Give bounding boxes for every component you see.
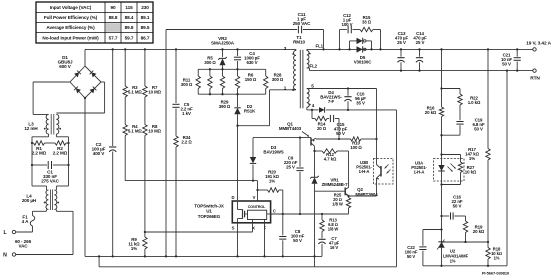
- node RTN terminal: [530, 69, 540, 82]
- capacitor C9 220 nF 25 V: [284, 138, 304, 216]
- pin labels U1: [232, 195, 276, 230]
- svg-text:TOP266EG: TOP266EG: [198, 214, 221, 219]
- wire opto collector column: [376, 89, 378, 159]
- wire drain to T1 pin 1: [238, 89, 297, 126]
- bridge rectifier D1 GBU8J 600 V: [58, 55, 101, 98]
- svg-text:250 VAC: 250 VAC: [293, 21, 311, 26]
- svg-text:2.2 MΩ: 2.2 MΩ: [53, 151, 68, 156]
- shunt regulator U2 LMV431AIMF 1%: [437, 240, 469, 267]
- capacitor C10 56 uF 35 V: [344, 89, 366, 110]
- capacitor C7 47 uF 16 V: [318, 236, 339, 256]
- capacitor C14 470 uF 25 V: [413, 31, 427, 72]
- wire lower return rail: [98, 255, 397, 267]
- svg-text:1%: 1%: [269, 179, 275, 184]
- svg-text:50 V: 50 V: [336, 131, 345, 136]
- wire secondary FL2 to RTN rail: [307, 68, 534, 71]
- svg-text:1/8 W: 1/8 W: [328, 227, 339, 232]
- resistor R1 2.2 Mohm: [32, 141, 55, 156]
- wire B+ rail: [85, 48, 296, 50]
- diode D3 BAV19WS: [250, 138, 284, 182]
- svg-text:ZMM5248B-7: ZMM5248B-7: [322, 182, 348, 187]
- svg-text:50 V: 50 V: [474, 127, 483, 132]
- svg-text:390 Ω: 390 Ω: [219, 104, 231, 109]
- svg-text:S: S: [232, 225, 235, 230]
- wire bridge to B- rail: [84, 97, 86, 257]
- wire bias node line: [253, 136, 311, 138]
- wire C11 return column: [165, 30, 167, 258]
- capacitor C22 100 nF 50 V: [405, 230, 442, 266]
- wire B- rail: [85, 255, 322, 257]
- svg-text:4.7 kΩ: 4.7 kΩ: [324, 157, 337, 162]
- svg-text:50 V: 50 V: [293, 238, 302, 243]
- transistor Q2 MMBT3904: [315, 187, 379, 197]
- svg-text:100 V: 100 V: [342, 22, 353, 27]
- svg-text:D: D: [232, 195, 235, 200]
- capacitor C13 470 uF 25 V: [395, 31, 409, 72]
- svg-text:19 V, 3.42 A: 19 V, 3.42 A: [526, 41, 551, 47]
- svg-text:5.1 MΩ: 5.1 MΩ: [128, 129, 142, 134]
- capacitor C2 100 uF 400 V: [92, 48, 117, 257]
- wire bridge right AC to L3: [56, 82, 104, 113]
- TVS VR2 SMAJ250A: [211, 36, 235, 69]
- resistor R9 11 kohm 1%: [128, 237, 147, 258]
- svg-text:25 V: 25 V: [397, 40, 406, 45]
- svg-text:1/8 W: 1/8 W: [332, 202, 343, 207]
- svg-text:LMV431AIMF: LMV431AIMF: [443, 254, 469, 259]
- capacitor C21 10 nF 50 V: [501, 48, 521, 72]
- wire secondary ground rail: [423, 265, 507, 267]
- resistor R19 20 kohm: [463, 216, 485, 242]
- svg-text:10 MΩ: 10 MΩ: [148, 90, 161, 95]
- svg-text:300 Ω: 300 Ω: [204, 60, 216, 65]
- wire S pin: [236, 223, 238, 258]
- node output terminal 19V: [526, 41, 551, 52]
- wire X pin line: [145, 231, 253, 233]
- wire opto emitter to Q2: [349, 184, 377, 196]
- resistor R16 20 kohm: [425, 106, 444, 159]
- svg-text:275 VAC: 275 VAC: [41, 179, 59, 184]
- svg-text:V30100C: V30100C: [354, 60, 373, 65]
- wire F1 to L4: [33, 210, 47, 212]
- svg-text:400 V: 400 V: [93, 151, 106, 156]
- wire LED cathode down: [440, 181, 442, 242]
- wire F pin: [263, 223, 265, 258]
- svg-text:88.8: 88.8: [109, 15, 118, 20]
- svg-text:600 V: 600 V: [59, 64, 72, 69]
- svg-text:25 V: 25 V: [416, 40, 425, 45]
- resistor R29 390 ohm: [219, 69, 231, 109]
- svg-text:1%: 1%: [450, 259, 456, 264]
- svg-text:CONTROL: CONTROL: [248, 205, 266, 209]
- svg-text:RS1K: RS1K: [244, 109, 256, 114]
- dual diode D5 V30100C: [348, 38, 372, 65]
- svg-text:RM10: RM10: [293, 40, 305, 45]
- transistor Q1 MMBT4403: [279, 122, 316, 152]
- capacitor C1 330 nF 275 VAC: [31, 161, 70, 184]
- label document number: [482, 271, 510, 276]
- resistor R11 300 ohm: [181, 69, 201, 94]
- svg-text:300 Ω: 300 Ω: [181, 82, 193, 87]
- svg-text:90: 90: [110, 5, 116, 10]
- resistor R18 10 kohm 1%: [486, 242, 502, 266]
- svg-text:20 kΩ: 20 kΩ: [473, 229, 485, 234]
- svg-text:50 V: 50 V: [502, 62, 511, 67]
- svg-text:Average Efficiency (%): Average Efficiency (%): [46, 25, 95, 30]
- capacitor C8 100 nF 50 V: [279, 214, 304, 258]
- inductor L3 12 mH: [24, 114, 61, 135]
- svg-text:1%: 1%: [494, 256, 500, 261]
- svg-text:630 V: 630 V: [247, 60, 258, 65]
- svg-text:230: 230: [141, 5, 149, 10]
- svg-text:N: N: [3, 253, 7, 259]
- node N input terminal: [3, 253, 16, 259]
- svg-text:59.7: 59.7: [125, 35, 134, 40]
- svg-text:100 Ω: 100 Ω: [350, 145, 362, 150]
- optocoupler U3A PS2501-1-H-A: [411, 159, 464, 182]
- svg-text:25 V: 25 V: [286, 165, 295, 170]
- svg-text:1%: 1%: [131, 246, 137, 251]
- svg-text:V: V: [253, 195, 256, 200]
- svg-text:7-F: 7-F: [328, 99, 335, 104]
- svg-text:50 V: 50 V: [453, 204, 462, 209]
- svg-text:C: C: [273, 208, 276, 213]
- zener VR1 ZMM5248B-7: [310, 151, 348, 267]
- wire CONTROL pin line: [271, 213, 324, 215]
- wire L3 bottoms to box: [32, 134, 69, 143]
- svg-text:VAC: VAC: [18, 244, 28, 249]
- svg-text:20 Ω: 20 Ω: [317, 126, 327, 131]
- resistor R4 5.1 Mohm: [123, 97, 142, 136]
- wire T1 primary top to rail: [295, 49, 297, 50]
- resistor R14 20 ohm: [312, 110, 329, 131]
- svg-text:33 Ω: 33 Ω: [362, 20, 372, 25]
- label input voltage range: [15, 239, 32, 249]
- svg-text:1.0 kΩ: 1.0 kΩ: [468, 100, 481, 105]
- capacitor C4 1000 pF 630 V: [234, 48, 260, 69]
- resistor R2 2.2 Mohm: [31, 141, 70, 165]
- diode D4 BAV21WS: [307, 90, 397, 113]
- table of efficiency measurements: [36, 2, 153, 43]
- svg-text:SMAJ250A: SMAJ250A: [211, 41, 235, 46]
- wire N to L4: [16, 210, 73, 255]
- resistor R12 4.7 kohm: [313, 149, 348, 188]
- resistor R34 2.2 ohm: [174, 135, 193, 258]
- wire aux pin5 line: [307, 87, 377, 89]
- resistor R17 147 kohm 1%: [465, 48, 490, 242]
- capacitor C12 1 uF 100 V: [338, 13, 360, 51]
- svg-text:200 µH: 200 µH: [22, 198, 37, 203]
- resistor R10 100 ohm: [350, 137, 377, 150]
- svg-text:Full Power Efficiency (%): Full Power Efficiency (%): [44, 15, 98, 20]
- capacitor C15 470 pF 50 V: [330, 115, 347, 140]
- wire U2 cathode node: [442, 241, 490, 243]
- svg-text:300 Ω: 300 Ω: [272, 77, 284, 82]
- svg-text:FL1: FL1: [316, 43, 324, 48]
- resistor R27 10 kohm: [440, 155, 477, 186]
- transformer T1 RM10: [284, 35, 324, 108]
- wire clamp top node: [198, 68, 266, 70]
- svg-text:No-load Input Power (mW): No-load Input Power (mW): [42, 35, 99, 40]
- svg-text:35 V: 35 V: [356, 101, 365, 106]
- capacitor C5 2.2 nF 1 kV: [172, 48, 193, 136]
- wire bias return column: [396, 110, 398, 267]
- resistor R8 10 Mohm: [143, 97, 162, 136]
- resistor R5 300 ohm: [204, 56, 216, 95]
- svg-text:MMBT4403: MMBT4403: [279, 126, 302, 131]
- resistor R28 300 ohm: [264, 69, 284, 94]
- resistor R22 1.0 kohm: [442, 89, 481, 121]
- optocoupler U3B PS2501-1-H-A: [356, 159, 393, 185]
- svg-text:2.2 Ω: 2.2 Ω: [181, 140, 192, 145]
- svg-text:89.5: 89.5: [141, 25, 150, 30]
- wire R8 to X node: [144, 136, 146, 238]
- svg-text:5.1 MΩ: 5.1 MΩ: [128, 90, 142, 95]
- svg-text:86.7: 86.7: [141, 35, 150, 40]
- svg-text:1%: 1%: [469, 156, 475, 161]
- svg-text:57.7: 57.7: [109, 35, 118, 40]
- svg-text:FL2: FL2: [310, 64, 318, 69]
- svg-text:Input Voltage (VAC): Input Voltage (VAC): [50, 5, 92, 10]
- wire L4 to X-cap box: [32, 166, 69, 190]
- svg-text:4 A: 4 A: [22, 219, 29, 224]
- svg-text:2.2 MΩ: 2.2 MΩ: [32, 151, 47, 156]
- resistor R25 20 ohm 1/8 W: [322, 193, 351, 215]
- svg-text:50 V: 50 V: [407, 254, 416, 259]
- svg-text:1 kV: 1 kV: [182, 111, 191, 116]
- svg-text:115: 115: [125, 5, 133, 10]
- svg-text:BAV19WS: BAV19WS: [263, 150, 283, 155]
- wire V pin: [256, 181, 258, 201]
- fuse F1 4 A: [22, 211, 35, 232]
- resistor R20 191 kohm 1%: [258, 170, 284, 216]
- resistor R13 6.8 ohm 1/8 W: [320, 214, 339, 238]
- svg-text:1-H-A: 1-H-A: [414, 170, 425, 175]
- capacitor C11 1 uF 250 VAC: [166, 12, 325, 51]
- wire secondary FL1 to output rail: [307, 49, 534, 50]
- wire bridge left AC to L3: [33, 82, 70, 115]
- wire Q1 emitter to R10: [316, 138, 351, 140]
- wire X pin: [252, 223, 254, 232]
- resistor R3 5.1 Mohm: [123, 48, 142, 97]
- svg-text:150 Ω: 150 Ω: [245, 77, 257, 82]
- diode D2 RS1K: [234, 94, 256, 200]
- svg-text:10 kΩ: 10 kΩ: [465, 170, 477, 175]
- resistor R7 10 Mohm: [143, 48, 162, 97]
- svg-text:89.1: 89.1: [141, 15, 150, 20]
- svg-text:16 V: 16 V: [330, 245, 339, 250]
- svg-text:10 MΩ: 10 MΩ: [148, 129, 161, 134]
- resistor R15 33 ohm: [360, 15, 382, 51]
- capacitor C19 6.8 nF 50 V: [442, 118, 485, 136]
- resistor R6 150 ohm: [235, 69, 257, 94]
- capacitor C16 22 nF 50 V: [442, 195, 466, 220]
- wire clamp bottom node: [198, 93, 266, 95]
- wire R4 to V pin: [125, 136, 257, 181]
- svg-text:89.8: 89.8: [125, 25, 134, 30]
- svg-text:88.4: 88.4: [125, 15, 134, 20]
- node L input terminal: [3, 230, 32, 236]
- wire RTN return column: [506, 69, 508, 265]
- inductor L4 200 uH: [22, 190, 59, 211]
- svg-text:PI-5667-030810: PI-5667-030810: [482, 271, 510, 276]
- wire bridge to B+ rail: [85, 49, 86, 66]
- svg-text:RTN: RTN: [530, 76, 540, 82]
- wire output sense column: [440, 48, 442, 107]
- svg-text:20 kΩ: 20 kΩ: [425, 110, 437, 115]
- svg-text:12 mH: 12 mH: [24, 126, 38, 131]
- TOPSwitch U1 TOP266EG: [194, 201, 270, 223]
- svg-text:1-H-A: 1-H-A: [359, 169, 370, 174]
